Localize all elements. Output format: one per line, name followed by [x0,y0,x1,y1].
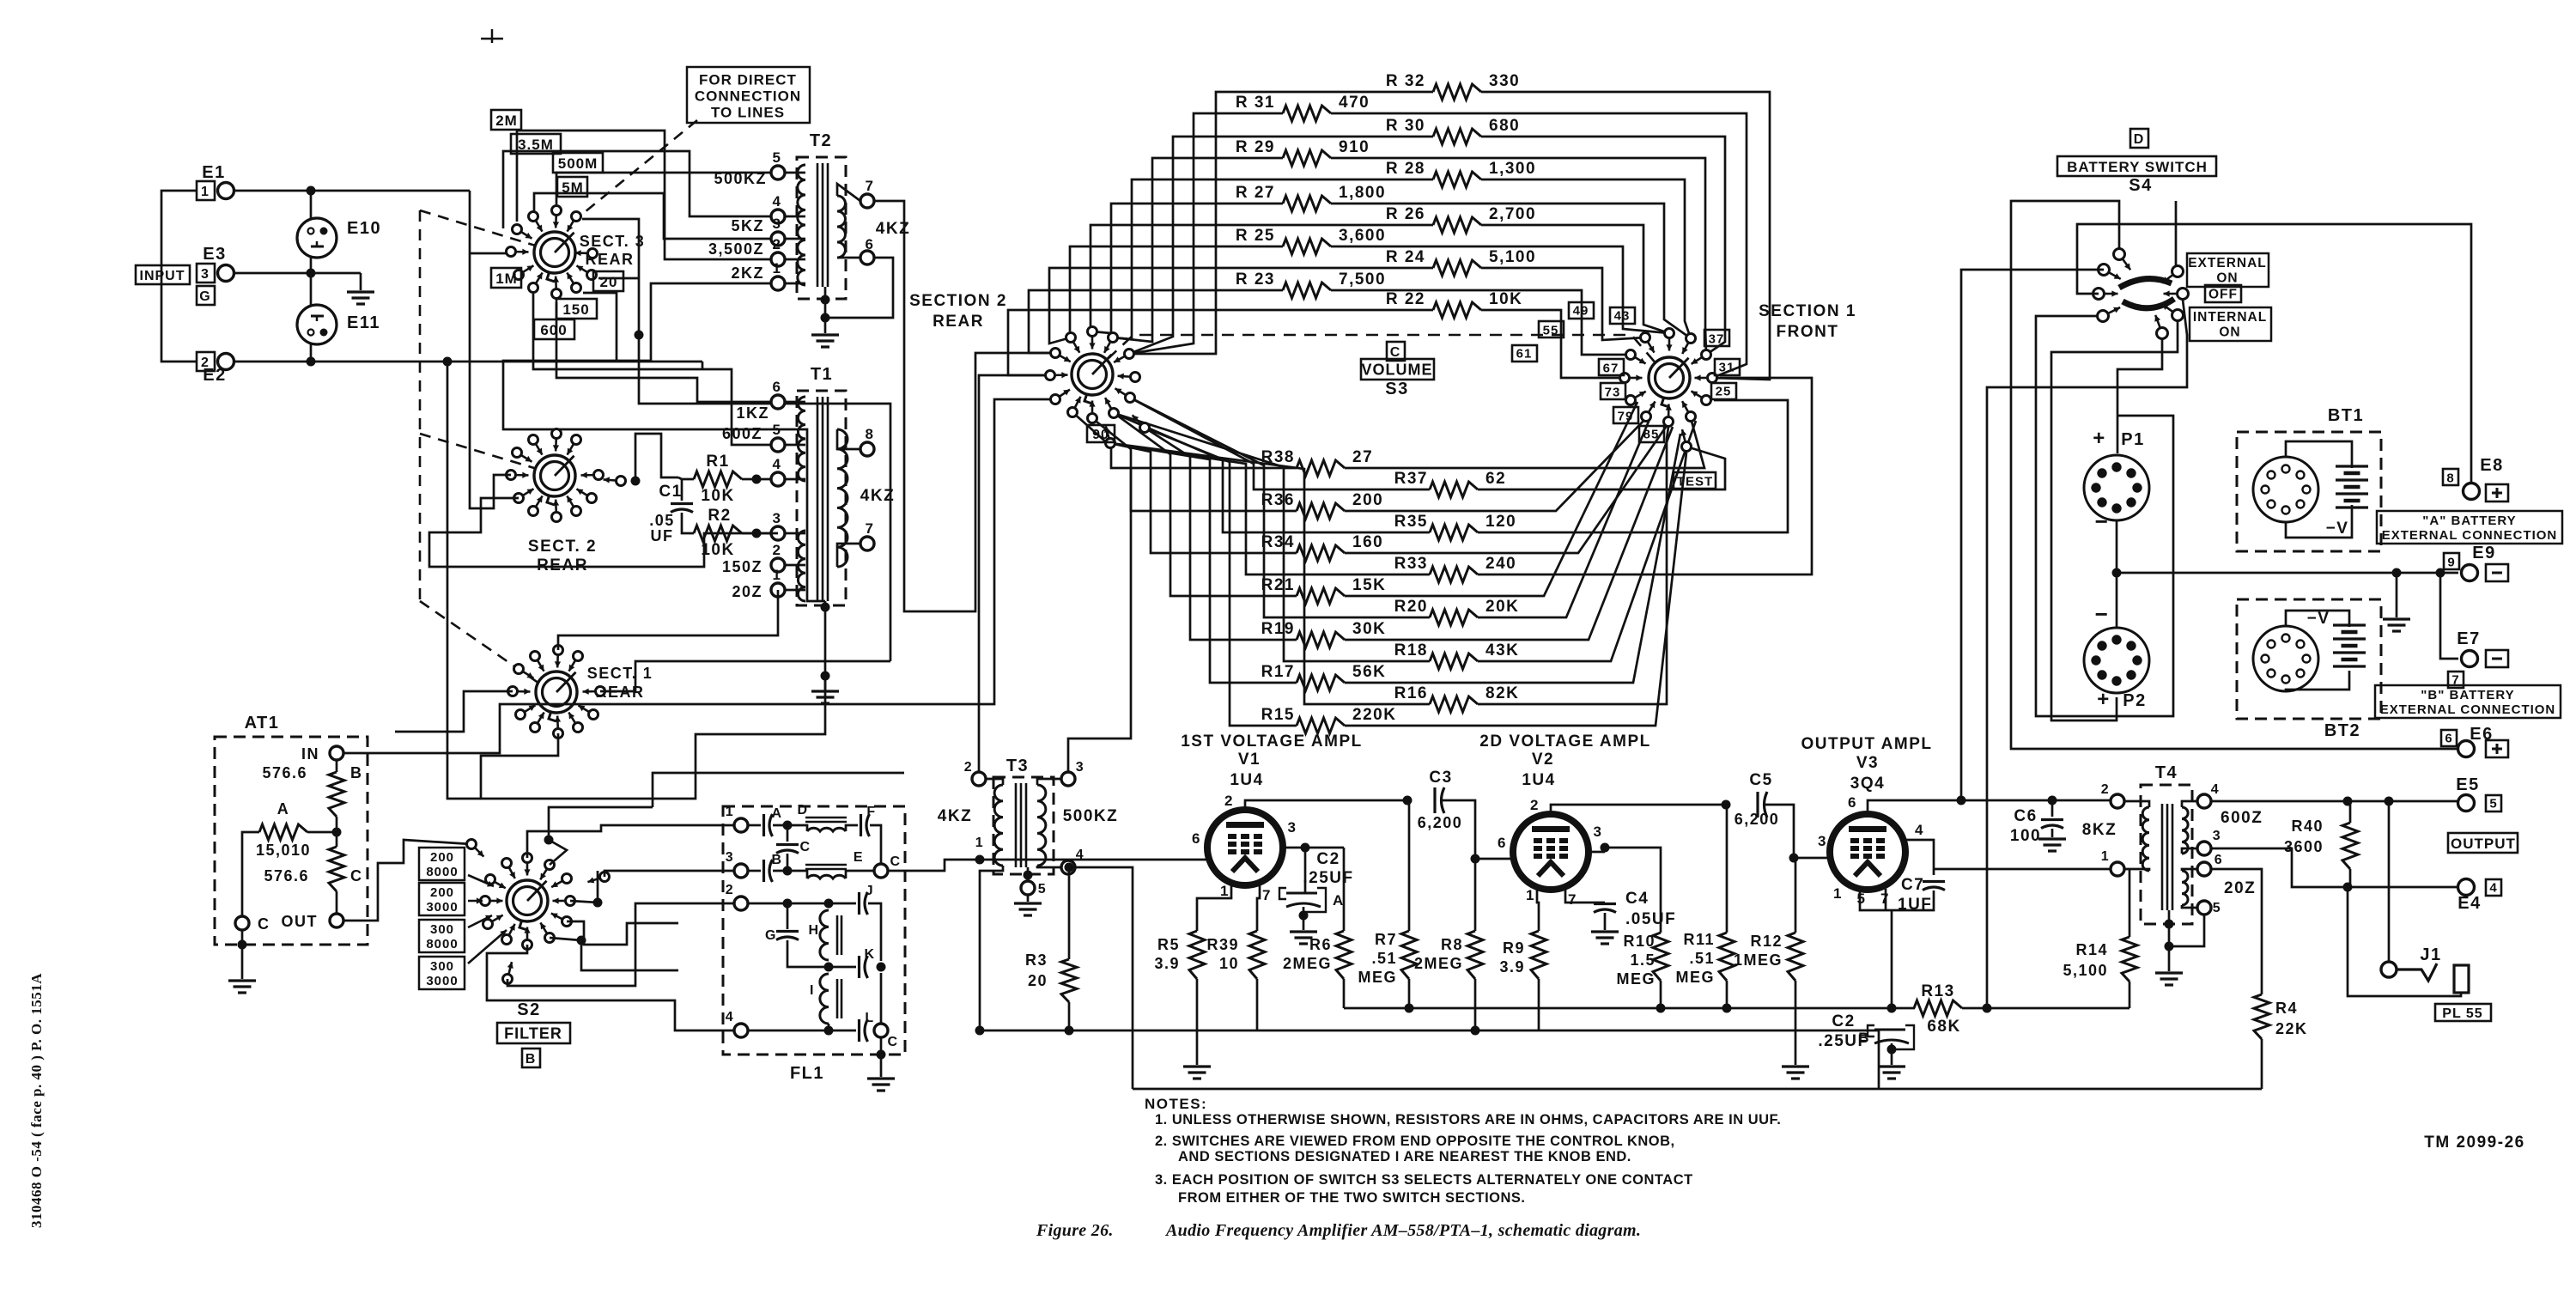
capacitor C4 [1594,904,1616,913]
capacitor J (FL1) [860,892,868,915]
svg-text:1: 1 [773,260,782,277]
svg-text:R5: R5 [1157,936,1180,953]
resistance box 150 [556,299,597,319]
T2 primary winding [798,165,805,285]
ground symbol C2B [1878,1067,1905,1079]
T4 bottom dot2 [2165,942,2174,951]
E7 drop [2440,573,2458,659]
V3 pin6 bus dot1 [1957,796,1966,805]
svg-text:R33: R33 [1394,555,1428,573]
SECT2 output junction [631,477,641,486]
tube V3 [1830,814,1905,890]
T3 pin3 up wire [1068,468,1131,772]
R5 bottom [1196,979,1199,1065]
svg-text:1: 1 [1526,887,1535,903]
T4 pin3 link [2182,848,2197,854]
svg-text:9: 9 [2447,555,2455,569]
svg-text:2KZ: 2KZ [731,264,764,282]
svg-text:5: 5 [2489,796,2497,811]
R6 bottom [1343,979,1346,1008]
T1 secondary winding [837,429,848,567]
svg-text:7: 7 [1568,891,1577,908]
FL1 J to K vertical [868,903,881,961]
svg-text:.51: .51 [1371,950,1397,967]
svg-text:R14: R14 [2075,941,2108,958]
bottom bus [1133,1088,2262,1091]
svg-text:2: 2 [964,760,973,775]
svg-text:R 22: R 22 [1386,290,1425,308]
AT1 A-to-mid [307,831,337,834]
svg-text:4: 4 [2489,880,2497,895]
svg-text:1,800: 1,800 [1339,184,1386,202]
svg-text:OUT: OUT [282,913,319,930]
terminal number box 5 [2486,795,2501,812]
C2B bottom lead [1891,1043,1893,1065]
svg-text:2: 2 [2101,782,2110,797]
inductor D (FL1) [807,828,846,831]
FL1 I bottom [828,1024,830,1030]
S2 wire dot a [544,836,554,845]
SECT1 loop lower [481,678,825,799]
wire row R28 left [1113,179,1433,339]
S4 wire B+ run [1987,300,2187,1008]
R3 bottom lead [1068,1002,1071,1030]
C3 right dot [1471,854,1480,864]
FL1 ground stem [880,1055,883,1077]
capacitor G (FL1) [776,932,799,940]
output label box [2448,833,2518,853]
T2 secondary top [837,184,860,201]
contact box 85 [1639,426,1664,442]
svg-text:UF: UF [651,527,674,544]
wire row R38 left [1072,412,1297,468]
svg-text:1M: 1M [495,271,518,287]
S2 feed wires right [653,773,904,807]
resistor R31 [1283,106,1331,121]
svg-text:600Z: 600Z [2221,809,2263,827]
svg-text:2: 2 [201,356,210,370]
S2 wire g [507,903,734,986]
socket P2 [2084,628,2149,693]
S2 wire f [550,938,627,970]
T4 pin4 link [2182,801,2197,807]
svg-text:240: 240 [1485,555,1516,573]
T2 primary stubs [785,172,805,174]
filament bus drop [1878,1030,1880,1089]
svg-text:C: C [890,854,901,869]
AT1 IN terminal [330,746,343,760]
resistor R38 [1297,460,1345,476]
svg-text:6: 6 [866,236,875,252]
FL1 node L [824,1026,834,1036]
resistance box 5M [557,177,587,197]
wire sect3 right rect [582,219,890,661]
svg-text:73: 73 [1605,385,1621,399]
R40 bottom lead [2349,869,2352,887]
polarity box + (E6) [2486,740,2508,757]
svg-text:MEG: MEG [1358,969,1397,986]
T1 pin 7 [860,537,874,550]
wire row R22 left [1008,310,1433,375]
svg-text:"A" BATTERY: "A" BATTERY [2422,514,2516,528]
resistor R24 [1433,260,1481,276]
T3 pin4 link [1037,866,1061,867]
svg-text:I: I [810,983,815,998]
svg-text:680: 680 [1489,117,1520,135]
resistor R28 [1433,172,1481,187]
resistor R39 [1249,931,1265,979]
input left bracket wire [161,191,197,362]
wire T2 pin5 500KZ [556,173,771,204]
svg-text:20K: 20K [1485,598,1519,616]
wire row R31 right [1331,113,1747,378]
wire E3 to junction [234,272,361,275]
svg-text:3: 3 [201,267,210,282]
R8 bottom [1474,979,1477,1030]
svg-text:C5: C5 [1749,771,1772,789]
svg-text:R 31: R 31 [1236,94,1275,112]
svg-text:6: 6 [1848,794,1857,811]
svg-text:EXTERNAL CONNECTION: EXTERNAL CONNECTION [2380,702,2556,717]
svg-text:T3: T3 [1006,757,1029,775]
svg-text:PL 55: PL 55 [2442,1006,2482,1021]
SECT1 loop upper [558,590,778,650]
svg-text:E9: E9 [2472,544,2495,562]
svg-text:NOTES:: NOTES: [1145,1096,1207,1112]
capacitor F (FL1) [861,814,870,836]
wire row R32 left [1129,92,1433,354]
resistor R12 [1788,933,1803,981]
C6 lead [2051,800,2054,817]
T3 pin1 wire [980,866,1003,1030]
SECT2 loop lower-left [429,498,778,567]
inductor H (FL1) [820,910,829,960]
svg-text:E8: E8 [2480,456,2503,475]
svg-text:470: 470 [1339,94,1370,112]
V3 pin6 wire [1868,800,2117,814]
C4 bottom lead [1604,913,1607,930]
wire 20 contact to junction [598,277,639,280]
V1 pin3 junction [1301,843,1310,853]
svg-text:"B" BATTERY: "B" BATTERY [2421,688,2514,702]
T4 secondary upper winding [2182,807,2188,854]
svg-text:FILTER: FILTER [504,1024,562,1042]
FL1 C cap link2 [787,854,789,871]
ground stem at E3 [360,273,362,290]
svg-text:150Z: 150Z [722,558,762,575]
svg-text:L: L [865,1011,874,1025]
resistor R37 [1430,482,1478,497]
T1 primary winding upper [798,397,805,481]
AT1 vertical top [336,760,338,772]
contact box 37 [1704,330,1729,346]
svg-text:2M: 2M [495,112,518,129]
dashed link to SECT2 [420,434,543,471]
R10 bottom [1660,981,1662,1008]
svg-text:R 28: R 28 [1386,160,1425,178]
resistor R2 [694,526,742,541]
T4 center bottom [2168,910,2171,971]
resistor R16 [1430,696,1478,712]
arrow 200/8000 [468,875,494,886]
AT1 IN wire [343,399,1055,753]
S4 wire A+ run [1961,270,2104,800]
V3 pin4 wire [1905,840,1934,875]
T2 pin 7 [860,194,874,208]
svg-text:82K: 82K [1485,684,1519,702]
filter box 300/8000 [419,920,465,952]
terminal E6 [2458,741,2475,757]
svg-text:.51: .51 [1689,950,1715,967]
svg-text:6: 6 [1498,835,1507,851]
svg-text:J: J [866,884,874,898]
svg-text:500KZ: 500KZ [1063,807,1119,825]
svg-text:R36: R36 [1261,491,1295,509]
svg-text:C6: C6 [2014,807,2037,825]
junction E2 vertical [443,357,453,367]
svg-text:C1: C1 [659,483,682,501]
polarity box - (E7) [2486,650,2508,667]
svg-text:R34: R34 [1261,533,1295,551]
filter label box [497,1023,570,1043]
S4 rotor arc upper [2119,279,2172,288]
wire row R29 left [1113,158,1283,342]
wire 2M rect to T2 pin2 [517,131,771,259]
J1 sleeve wire [2348,887,2461,996]
svg-text:SECT. 1: SECT. 1 [587,665,653,682]
T2 pin 6 [860,251,874,264]
T2 ground junction1 [821,295,830,305]
svg-text:6,200: 6,200 [1418,814,1463,831]
resistor R3 [1061,959,1077,1002]
C5 right wire [1765,805,1794,858]
BT2 bottom wire [2286,671,2349,691]
S2 wire c [605,871,734,877]
V1 pin7 wire [1257,884,1260,931]
resistor R23 [1283,283,1331,298]
R12 top lead [1795,858,1797,933]
svg-text:1: 1 [1220,883,1230,899]
svg-text:1: 1 [975,836,984,850]
FL1 F to C node [870,825,881,864]
svg-text:BT1: BT1 [2328,406,2364,425]
svg-text:2: 2 [1224,793,1234,809]
R3 bottom junction [1065,1026,1074,1036]
ground symbol minus bus [2383,619,2410,631]
contact box 55 [1539,321,1564,337]
svg-text:Audio Frequency Amplifier AM–5: Audio Frequency Amplifier AM–558/PTA–1, … [1164,1221,1641,1240]
svg-text:B: B [1858,1030,1870,1046]
wire row R36 right [1345,418,1646,511]
R7 bottom dot [1405,1004,1414,1013]
AT1 C terminal [235,916,249,930]
svg-text:SECT. 3: SECT. 3 [580,233,646,250]
socket BT2 [2253,626,2318,691]
T1 pin 4 [771,472,785,486]
wire row R26 right [1481,225,1669,333]
terminal number box 2 [197,352,215,371]
junction E1/E10 [307,186,316,196]
P2 top lead [2116,573,2118,628]
dashed link to SECT1 [420,601,544,687]
T4 pin 4 [2197,794,2211,808]
svg-text:C: C [799,840,811,854]
jack J1 hook [2397,963,2437,981]
callout FOR DIRECT CONNECTION TO LINES [687,67,810,123]
FL1 D to F [846,825,858,831]
wire row R27 left [1092,204,1283,333]
svg-text:7: 7 [866,520,875,537]
wire row R25 left [1070,246,1283,337]
svg-text:A: A [771,806,782,821]
svg-text:330: 330 [1489,72,1520,90]
wire row R33 left [1110,443,1430,574]
rotary switch S1 SECT.2 hub [534,455,575,496]
FL1 B to E [773,871,807,878]
T2 secondary bottom [837,257,860,259]
E5 wire [2211,800,2458,803]
junction T3 pin1 wire [975,855,985,865]
svg-text:910: 910 [1339,138,1370,156]
P1 to junction [2116,520,2118,573]
T1 pin 3 [771,526,785,540]
svg-text:1,300: 1,300 [1489,160,1536,178]
svg-text:30K: 30K [1352,620,1386,638]
capacitor C2A [1286,892,1317,895]
svg-text:A: A [277,800,290,818]
resistor R34 [1297,545,1345,561]
T4 pin6 link [2182,869,2197,871]
C7 to R13 wire [1891,910,1893,1008]
FL1 K to L [880,973,883,1024]
rotary switch S3 section1 hub [1649,357,1690,398]
svg-text:MEG: MEG [1675,969,1715,986]
resistor R25 [1283,239,1331,254]
G top stub [787,903,789,929]
FL1 ground junction [877,1050,886,1060]
wire E2 right [234,361,702,363]
V3 pin6 bus dot2 [2048,796,2057,805]
resistor R15 [1297,718,1345,733]
svg-text:49: 49 [1573,303,1589,318]
svg-text:200: 200 [1352,491,1383,509]
junction R2/T1 pin3 [752,529,762,538]
svg-text:8: 8 [866,426,875,442]
resistor R33 [1430,567,1478,582]
transformer T4 enclosure [2141,785,2192,924]
C2A top lead [1304,848,1307,893]
resistor R32 [1433,84,1481,100]
svg-text:1. UNLESS OTHERWISE SHOWN, R: 1. UNLESS OTHERWISE SHOWN, RESISTORS ARE… [1155,1112,1781,1128]
R1 right lead [742,478,771,481]
filter FL1 enclosure [723,806,905,1055]
wire row R20 left [1130,398,1430,617]
svg-text:3: 3 [1288,819,1297,836]
ground symbol AT1 [228,981,256,993]
T1 primary stubs [785,401,805,404]
T4 pin 1 [2111,862,2124,876]
svg-text:R17: R17 [1261,663,1295,681]
capacitor C7 [1923,882,1945,891]
resistor R19 [1297,632,1345,647]
svg-text:3. EACH POSITION OF SWITCH: 3. EACH POSITION OF SWITCH S3 SELECTS AL… [1155,1172,1693,1188]
FL1 node B [783,866,793,876]
FL1 terminal 4 [734,1024,748,1037]
AT1 vertical mid [336,817,338,847]
svg-text:S2: S2 [517,1000,540,1019]
FL1 node K right [877,963,886,972]
svg-text:43: 43 [1614,308,1631,323]
wire bottom-right contact stub [583,293,617,361]
V2 grid wire [1475,858,1513,860]
wire row R38 right [1345,418,1704,468]
filter box 200/8000 [419,848,465,880]
T2 pin 5 [771,166,785,179]
S4 rotor arc lower [2123,299,2174,308]
T4 pin5 down [2169,915,2204,946]
svg-text:1: 1 [773,567,782,583]
svg-text:3: 3 [1818,833,1827,849]
resistor R35 [1430,525,1478,540]
J1 drop [2388,801,2391,962]
wire row R19 left [1145,428,1297,640]
T3 pin 3 [1061,772,1075,786]
filter box 300/3000 [419,957,465,989]
T4 pin 2 [2111,794,2124,808]
svg-text:10: 10 [1219,955,1239,972]
volume label box [1361,359,1434,380]
svg-text:3600: 3600 [2284,838,2324,855]
R4 bottom lead [2261,1039,2263,1089]
B battery external connection box [2375,685,2561,718]
svg-text:4: 4 [2211,782,2220,797]
tube V1 [1207,810,1283,885]
rotary switch S1 SECT.3 hub [534,232,575,273]
SECT2 out to R loop [635,434,678,481]
wire row R37 right [1478,447,1725,489]
capacitor C3 [1435,787,1444,813]
wire row R22 right [1481,310,1625,378]
C6 bottom [2051,829,2054,837]
FL1 node HK [824,963,834,972]
BT1 bottom wire [2286,505,2352,538]
C7 bottom loop [1860,891,1934,910]
svg-text:C2: C2 [1832,1012,1855,1030]
T2 ground junction2 [821,313,830,323]
svg-text:E11: E11 [347,313,380,332]
svg-text:AT1: AT1 [245,714,280,732]
resistance box 20 [593,271,623,291]
S2 wire dot c [593,898,603,908]
svg-text:150: 150 [562,301,589,318]
plug label box PL55 [2435,1004,2491,1021]
wire row R15 right [1345,453,1686,726]
svg-text:T1: T1 [811,365,833,384]
svg-text:27: 27 [1352,448,1373,466]
svg-text:20Z: 20Z [732,583,762,600]
wire row R16 right [1478,427,1668,704]
svg-text:R13: R13 [1921,982,1954,1000]
svg-text:BT2: BT2 [2324,721,2360,740]
wire 600 contact [533,294,771,445]
FL1 HK to K [829,966,856,969]
connector E11 [297,305,337,344]
svg-text:600: 600 [540,322,567,338]
filter box 200/3000 [419,883,465,915]
svg-text:K: K [864,947,875,962]
terminal E4 [2458,879,2475,896]
V2 pin2 wire [1551,805,1726,814]
